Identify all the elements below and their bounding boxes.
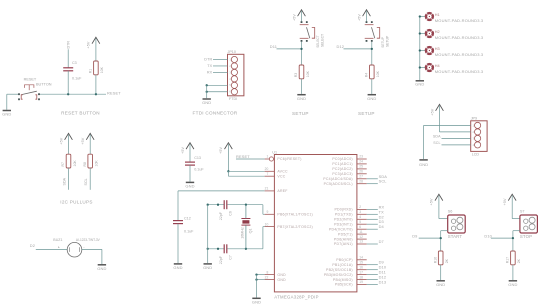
svg-text:PD3(INT1): PD3(INT1) <box>334 222 353 226</box>
svg-text:DTR: DTR <box>204 58 212 62</box>
wire DTR to C3 <box>67 49 69 68</box>
svg-text:10K: 10K <box>95 160 99 167</box>
junction D11 / R3 <box>300 48 302 50</box>
svg-text:SELECT: SELECT <box>316 35 320 47</box>
svg-text:PD0(RXD): PD0(RXD) <box>335 208 353 212</box>
pin 20 AVCC of U1 <box>265 170 275 172</box>
wire xtal1 right segment <box>228 204 263 206</box>
svg-text:S6: S6 <box>448 209 453 213</box>
svg-text:22: 22 <box>265 275 269 279</box>
svg-text:16: 16 <box>359 265 363 269</box>
wire +5V to switch S2 <box>301 11 303 21</box>
svg-text:6: 6 <box>359 225 361 229</box>
wire U1 to D10 <box>367 269 378 271</box>
wire +5V to C13 <box>189 144 191 162</box>
wire GND pin8 <box>257 274 265 276</box>
wire R1 to reset net <box>95 75 97 94</box>
wire XTAL1 stub <box>263 213 265 215</box>
svg-text:PB6(XTAL1/TOSC1): PB6(XTAL1/TOSC1) <box>277 213 313 217</box>
svg-text:22pF: 22pF <box>219 211 223 220</box>
svg-text:U1: U1 <box>272 150 277 154</box>
pin 12 PD6(AIN0) of U1 <box>357 238 367 240</box>
pin 24 PC1(ADC1) of U1 <box>357 163 367 165</box>
svg-text:+5V: +5V <box>292 14 296 21</box>
svg-text:1: 1 <box>266 155 268 159</box>
wire U1 to D11 <box>367 274 378 276</box>
wire D10 label to junction <box>491 237 513 239</box>
svg-text:RX: RX <box>207 71 213 75</box>
svg-text:GND: GND <box>367 96 376 101</box>
wire switch S2 to D11 net <box>301 42 303 65</box>
svg-text:BUTTON: BUTTON <box>36 83 52 87</box>
wire R3 to ground <box>301 79 303 94</box>
svg-text:D12: D12 <box>337 44 345 49</box>
svg-text:JP10: JP10 <box>228 50 236 54</box>
wire +5V to switch S3 <box>366 11 368 21</box>
svg-text:10K: 10K <box>73 160 77 167</box>
pin 1 PC6(/RESET) of U1 <box>265 158 270 160</box>
svg-text:SCL: SCL <box>379 179 388 184</box>
svg-text:RESET: RESET <box>236 154 250 159</box>
wire R16 to ground <box>440 265 442 280</box>
capacitor C7 <box>224 244 227 253</box>
svg-text:PD2(INT0): PD2(INT0) <box>334 218 353 222</box>
svg-text:PC4(ADC4/SDA): PC4(ADC4/SDA) <box>323 177 353 181</box>
svg-text:GND: GND <box>203 265 212 270</box>
svg-text:2K: 2K <box>517 258 521 263</box>
junction xtal1 crystal <box>245 204 247 206</box>
wire GND pin22 <box>257 279 265 281</box>
wire to XTAL2 pin <box>262 227 264 249</box>
wire U1 to D4 <box>367 228 378 230</box>
svg-text:C6: C6 <box>229 211 233 216</box>
+5V supply above S6 <box>430 194 443 205</box>
svg-text:13: 13 <box>359 240 363 244</box>
junction xtal2 crystal <box>245 248 247 250</box>
svg-text:SETUP: SETUP <box>358 111 375 116</box>
svg-text:SDA: SDA <box>62 177 66 185</box>
svg-text:DTR: DTR <box>67 41 71 49</box>
svg-text:SELECT: SELECT <box>321 34 325 47</box>
junction reset net / C3 <box>67 93 69 95</box>
svg-text:S7: S7 <box>520 209 525 213</box>
capacitor C13 <box>185 162 195 165</box>
ground S6 <box>436 281 445 287</box>
wire S6 lower pin <box>441 230 448 232</box>
svg-text:GND: GND <box>173 265 182 270</box>
connector JP10 FTDI <box>228 54 244 96</box>
+5V supply above S7 <box>503 194 516 205</box>
resistor R1 <box>94 61 99 75</box>
wire +5V to R1 <box>95 39 97 62</box>
pin 21 AREF of U1 <box>265 190 275 192</box>
svg-text:MOUNT-PAD-ROUND3.3: MOUNT-PAD-ROUND3.3 <box>435 35 484 40</box>
wire U1 to D12 <box>367 279 378 281</box>
svg-text:9: 9 <box>266 210 268 214</box>
svg-text:Q1: Q1 <box>248 228 252 233</box>
pin 23 PC0(ADC0) of U1 <box>357 158 367 160</box>
svg-text:14: 14 <box>359 256 363 260</box>
svg-text:PB4(MISO): PB4(MISO) <box>333 278 353 282</box>
wire D2 to buzzer <box>36 248 67 250</box>
pin 3 of JP10 <box>231 69 237 75</box>
svg-text:PB5(SCK): PB5(SCK) <box>335 283 353 287</box>
svg-text:PC3(ADC3): PC3(ADC3) <box>332 172 352 176</box>
wire +5V down S7 <box>511 196 513 219</box>
wire C3 to reset net <box>67 71 69 94</box>
capacitor C12 <box>173 221 183 224</box>
svg-text:20: 20 <box>265 167 269 171</box>
svg-text:GND: GND <box>185 184 194 189</box>
svg-text:7: 7 <box>266 172 268 176</box>
svg-text:C13: C13 <box>194 156 201 160</box>
svg-text:23: 23 <box>359 155 363 159</box>
svg-text:MOUNT-PAD-ROUND3.3: MOUNT-PAD-ROUND3.3 <box>435 69 484 74</box>
svg-text:SETUP: SETUP <box>381 37 385 48</box>
svg-text:R4: R4 <box>365 73 369 78</box>
wire to XTAL1 pin <box>262 205 264 215</box>
svg-text:+5V: +5V <box>87 41 91 48</box>
pin 22 GND of U1 <box>265 279 275 281</box>
svg-text:18: 18 <box>359 275 363 279</box>
wire to ground <box>206 85 208 98</box>
wire R7 to SDA label <box>68 168 70 190</box>
wire S7 lower pin <box>513 230 520 232</box>
ground S7 <box>508 281 517 287</box>
svg-text:GND: GND <box>508 282 517 287</box>
wire DTR to JP10 pin1 <box>213 59 228 61</box>
svg-text:+5V: +5V <box>503 198 507 205</box>
wire C13 to ground <box>189 165 191 182</box>
wire C12 to ground <box>177 224 179 264</box>
svg-text:RESET: RESET <box>107 90 121 95</box>
svg-text:2: 2 <box>359 205 361 209</box>
resistor R4 <box>370 65 375 79</box>
svg-text:25: 25 <box>359 165 363 169</box>
svg-text:0.1uF: 0.1uF <box>184 230 194 234</box>
svg-text:RESET: RESET <box>24 78 37 82</box>
svg-text:PC6(/RESET): PC6(/RESET) <box>277 157 301 161</box>
junction gnd/xtal1 <box>207 204 209 206</box>
wire S7 to D10 junction <box>512 231 514 251</box>
+5V supply above R7 <box>59 133 72 144</box>
svg-text:+5V: +5V <box>59 137 63 144</box>
svg-text:26: 26 <box>359 170 363 174</box>
wire switch S3 to D12 net <box>371 42 373 65</box>
wire U1 to D13 <box>367 284 378 286</box>
svg-text:VCC: VCC <box>277 174 285 178</box>
+5V supply above SETUP switch <box>357 10 370 21</box>
wire R4 to ground <box>371 79 373 94</box>
wire RESET to U1 pin1 <box>236 158 265 160</box>
connector JP9 LCD <box>471 121 487 152</box>
svg-text:GND: GND <box>277 278 286 282</box>
wire +5V to R7 <box>68 135 70 155</box>
svg-text:D2: D2 <box>30 243 35 248</box>
svg-text:PC0(ADC0): PC0(ADC0) <box>332 157 352 161</box>
svg-text:H2: H2 <box>435 30 440 34</box>
pin 5 of JP10 <box>231 82 237 88</box>
svg-text:19: 19 <box>359 280 363 284</box>
crystal Q1 16MHz <box>241 205 250 249</box>
svg-text:D9: D9 <box>412 234 417 239</box>
svg-text:+5V: +5V <box>430 108 434 115</box>
svg-text:STOP: STOP <box>520 234 532 239</box>
svg-text:24: 24 <box>359 160 363 164</box>
svg-text:+5V: +5V <box>181 146 185 153</box>
svg-text:27: 27 <box>359 175 363 179</box>
pin 9 PB6(XTAL1/TOSC1) of U1 <box>265 213 275 215</box>
wire to AVCC pin20 <box>228 170 264 172</box>
wire xtal2 left segment <box>208 248 225 250</box>
svg-text:C3: C3 <box>72 61 77 65</box>
resistor R3 <box>299 65 304 79</box>
svg-text:H4: H4 <box>435 64 440 68</box>
svg-text:GND: GND <box>252 300 261 305</box>
pin 14 PB0(ICP) of U1 <box>357 259 367 261</box>
svg-text:FTDI CONNECTOR: FTDI CONNECTOR <box>193 111 238 116</box>
wire +5V to S7 <box>512 218 520 220</box>
ground C12 <box>173 264 182 270</box>
wire U1 to SCL <box>367 183 378 185</box>
pin 6 PD4(XCK/T0) of U1 <box>357 228 367 230</box>
wire AVCC to VCC branch <box>227 171 229 176</box>
svg-text:21: 21 <box>265 187 269 191</box>
wire to ground <box>6 94 8 110</box>
junction xtal1 cap <box>217 204 219 206</box>
wire U1 to TX <box>367 213 378 215</box>
wire crystal gnd vertical <box>207 205 209 263</box>
svg-text:PB3(MOSI/OC2): PB3(MOSI/OC2) <box>324 273 353 277</box>
svg-text:GND: GND <box>297 96 306 101</box>
svg-text:D4: D4 <box>379 224 385 229</box>
svg-text:GND: GND <box>419 162 428 167</box>
wire to ground <box>256 275 258 298</box>
svg-text:AVCC: AVCC <box>277 170 288 174</box>
wire D12 label to junction <box>344 48 372 50</box>
pushbutton S2 <box>300 21 315 42</box>
wire +5V down to AVCC <box>227 144 229 171</box>
svg-text:+5V: +5V <box>430 198 434 205</box>
wire xtal2 right segment <box>228 248 263 250</box>
wire U1 to D2 <box>367 218 378 220</box>
ground mount pads <box>415 81 424 87</box>
svg-text:PB1(OC1A): PB1(OC1A) <box>332 263 352 267</box>
wire AREF to C12 <box>178 190 265 192</box>
ground reset button <box>2 111 11 117</box>
wire bus to H3 <box>420 50 426 52</box>
svg-text:3: 3 <box>359 210 361 214</box>
svg-text:10K: 10K <box>100 66 104 73</box>
pin 25 PC2(ADC2) of U1 <box>357 168 367 170</box>
svg-text:SCL: SCL <box>84 178 88 185</box>
junction FTDI gnd lower <box>206 91 208 93</box>
junction D9 / R16 <box>440 237 442 239</box>
pushbutton S6 START <box>448 215 466 233</box>
svg-text:RESET BUTTON: RESET BUTTON <box>61 111 100 116</box>
svg-text:PD5(T1): PD5(T1) <box>338 232 353 236</box>
svg-text:PD1(TXD): PD1(TXD) <box>335 213 353 217</box>
pin 27 PC4(ADC4/SDA) of U1 <box>357 178 367 180</box>
capacitor C6 <box>224 200 227 209</box>
pin 2 of JP10 <box>231 63 237 69</box>
ground setup <box>367 95 376 101</box>
junction gnd pin22 <box>255 278 257 280</box>
wire xtal1 left segment <box>208 204 225 206</box>
junction reset net / R1 <box>95 93 97 95</box>
capacitor C3 <box>63 68 73 71</box>
wire U1 to D7 <box>367 243 378 245</box>
svg-text:ATMEGA328P_PDIP: ATMEGA328P_PDIP <box>274 294 318 299</box>
+5V supply above SELECT switch <box>292 10 305 21</box>
svg-text:TX: TX <box>207 64 212 68</box>
pin 8 GND of U1 <box>265 274 275 276</box>
svg-text:PB2(SS/OC1B): PB2(SS/OC1B) <box>326 268 353 272</box>
+5V supply above C13 <box>181 143 194 154</box>
pin 4 PD2(INT0) of U1 <box>357 218 367 220</box>
pin 2 of JP9 <box>475 129 481 135</box>
svg-text:GND: GND <box>436 282 445 287</box>
svg-text:+5V: +5V <box>357 14 361 21</box>
svg-text:SCL: SCL <box>433 141 440 145</box>
svg-text:GND: GND <box>97 266 106 271</box>
junction bus at H4 <box>419 66 421 68</box>
+5V supply above R8 <box>81 133 94 144</box>
svg-text:R3: R3 <box>294 73 298 78</box>
junction D12 / R4 <box>371 48 373 50</box>
resistor R7 <box>66 154 71 168</box>
pin 11 PD5(T1) of U1 <box>357 233 367 235</box>
junction gnd pin8 <box>255 273 257 275</box>
pin 4 of JP10 <box>231 76 237 82</box>
svg-text:11: 11 <box>359 230 363 234</box>
svg-text:0.1uF: 0.1uF <box>194 167 204 171</box>
wire buzzer to ground corner <box>82 248 102 250</box>
wire bus to H2 <box>420 33 426 35</box>
svg-text:H1: H1 <box>435 13 440 17</box>
svg-text:SETUP: SETUP <box>386 35 390 47</box>
wire JP10 pin5 to GND <box>207 84 228 86</box>
pin 18 PB4(MISO) of U1 <box>357 279 367 281</box>
svg-text:MOUNT-PAD-ROUND3.3: MOUNT-PAD-ROUND3.3 <box>435 18 484 23</box>
svg-text:BUZ1: BUZ1 <box>53 238 62 242</box>
wire U1 to D9 <box>367 264 378 266</box>
wire R17 to ground <box>512 265 514 280</box>
buzzer BUZ1 <box>58 242 85 257</box>
wire U1 to RX <box>367 208 378 210</box>
svg-text:PD6(AIN0): PD6(AIN0) <box>334 237 353 241</box>
resistor R8 <box>88 154 93 168</box>
wire RX to JP10 pin3 <box>213 71 228 73</box>
wire TX to JP10 pin2 <box>213 65 228 67</box>
wire mount pad ground bus <box>419 17 421 81</box>
wire down to C12 <box>177 191 179 221</box>
wire R8 to SCL label <box>89 168 91 190</box>
svg-text:GND: GND <box>2 112 11 117</box>
pin 10 PB7(XTAL2/TOSC2) of U1 <box>265 226 275 228</box>
svg-text:LCD: LCD <box>472 152 480 156</box>
pin 17 PB3(MOSI/OC2) of U1 <box>357 274 367 276</box>
wire XTAL2 stub <box>263 226 265 228</box>
wire +5V down S6 <box>438 196 440 219</box>
svg-text:PC5(ADC5/SCL): PC5(ADC5/SCL) <box>324 182 353 186</box>
pin 4 of JP9 <box>475 142 481 148</box>
svg-text:10K: 10K <box>376 70 380 77</box>
ground C13 <box>185 182 194 188</box>
+5V supply above U1 power <box>219 143 232 154</box>
wire D9 label to junction <box>419 237 441 239</box>
ground setup select <box>297 95 306 101</box>
wire D11 label to junction <box>277 48 302 50</box>
wire GND to reset switch <box>7 93 19 95</box>
svg-text:4: 4 <box>359 215 361 219</box>
ground U1 <box>252 298 261 304</box>
pin 2 PD0(RXD) of U1 <box>357 208 367 210</box>
junction xtal2 cap <box>217 248 219 250</box>
svg-text:START: START <box>448 234 463 239</box>
pushbutton S7 STOP <box>520 215 538 233</box>
mount pad H4 <box>424 63 434 73</box>
svg-text:10K: 10K <box>306 70 310 77</box>
svg-text:D7: D7 <box>379 239 384 244</box>
wire U1 to D3 <box>367 223 378 225</box>
svg-text:SETUP: SETUP <box>292 111 309 116</box>
junction bus at H2 <box>419 32 421 34</box>
resistor R17 <box>511 251 516 265</box>
svg-text:28: 28 <box>359 179 363 183</box>
wire bus to H1 <box>420 16 426 18</box>
wire +5V down <box>439 106 441 132</box>
svg-text:PB0(ICP): PB0(ICP) <box>336 258 353 262</box>
+5V supply above LCD <box>430 104 443 115</box>
pin 16 PB2(SS/OC1B) of U1 <box>357 269 367 271</box>
wire S6 to D9 junction <box>440 231 442 251</box>
svg-text:PD4(XCK/T0): PD4(XCK/T0) <box>329 227 353 231</box>
mount pad H3 <box>424 46 434 56</box>
wire +5V to S6 <box>439 218 448 220</box>
pin 15 PB1(OC1A) of U1 <box>357 264 367 266</box>
mount pad H1 <box>424 12 434 22</box>
svg-text:SDA: SDA <box>433 135 441 139</box>
svg-text:C12: C12 <box>184 217 191 221</box>
resistor R16 <box>438 251 443 265</box>
svg-text:22pF: 22pF <box>219 255 223 264</box>
pin 13 PD7(AIN1) of U1 <box>357 243 367 245</box>
pin 7 VCC of U1 <box>265 175 275 177</box>
svg-text:R1: R1 <box>89 69 93 74</box>
svg-text:AI-1223-TWT-3V: AI-1223-TWT-3V <box>76 238 101 242</box>
wire to ground <box>423 125 425 159</box>
svg-text:17: 17 <box>359 270 363 274</box>
pin 28 PC5(ADC5/SCL) of U1 <box>357 183 367 185</box>
pushbutton S1 RESET BUTTON <box>18 85 40 100</box>
wire JP9 pin1 to GND <box>424 124 471 126</box>
wire bus to H4 <box>420 67 426 69</box>
svg-text:MOUNT-PAD-ROUND3.3: MOUNT-PAD-ROUND3.3 <box>435 52 484 57</box>
junction bus at H1 <box>419 15 421 17</box>
svg-text:GND: GND <box>415 82 424 87</box>
+5V supply above R1 <box>87 37 100 48</box>
svg-text:5: 5 <box>359 220 361 224</box>
svg-text:8: 8 <box>266 270 268 274</box>
IC U1 ATMEGA328P <box>274 155 357 292</box>
svg-text:12: 12 <box>359 235 363 239</box>
junction AVCC/VCC <box>227 170 229 172</box>
svg-text:D11: D11 <box>270 44 277 49</box>
svg-text:GND: GND <box>202 100 211 105</box>
pin 6 of JP10 <box>231 89 237 95</box>
svg-text:2K: 2K <box>445 258 449 263</box>
